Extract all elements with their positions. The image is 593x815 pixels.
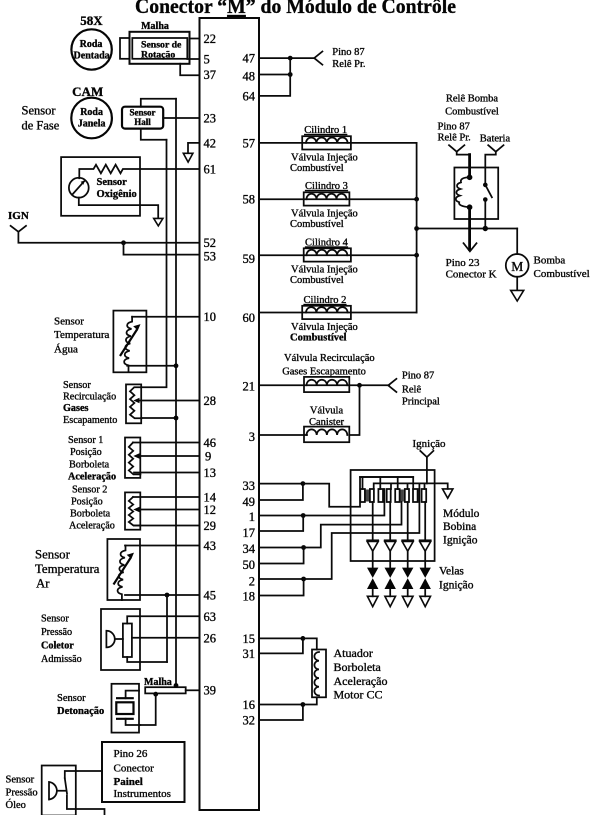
wire pin 13: [134, 472, 200, 474]
svg-text:Válvula: Válvula: [310, 406, 344, 417]
svg-text:57: 57: [243, 136, 256, 150]
sensor de rotacao box: [132, 38, 187, 60]
label Atuador Borboleta Aceleracao Motor CC: [334, 646, 388, 702]
ground arrow module: [443, 489, 453, 498]
wire water temp to shield net: [127, 365, 176, 367]
sensor 1 TPS box: [125, 438, 140, 478]
coil feed bus B to module ground: [374, 483, 448, 489]
relay switch blade: [485, 185, 492, 197]
relay switch contacts: [483, 183, 488, 188]
svg-text:23: 23: [204, 112, 217, 126]
connector symbol Pino 87 Rele Pr.: [314, 52, 322, 65]
junction 1/17: [301, 513, 306, 518]
wire pin 26: [132, 637, 200, 639]
oil pressure switch blade: [65, 778, 67, 793]
air temp arrow: [114, 553, 135, 585]
ignition coil windings group 3: [395, 489, 409, 502]
svg-text:Temperatura: Temperatura: [54, 329, 110, 341]
svg-text:58X: 58X: [80, 13, 103, 28]
label Valvula Injecao Combustivel 4: [290, 265, 358, 287]
wire hall top to shield net: [141, 99, 176, 107]
diode D2: [385, 540, 396, 551]
ground arrow oxygen sensor: [154, 218, 163, 226]
junction EGR / canister: [357, 383, 362, 388]
wire knock sensor to shield bar: [140, 694, 155, 725]
svg-text:Relê Pr.: Relê Pr.: [332, 59, 365, 70]
ignition coil windings group 1: [360, 489, 374, 502]
canister valve coil: [307, 429, 348, 435]
wire pin 32: [259, 705, 303, 721]
svg-text:Combustível: Combustível: [290, 275, 344, 286]
svg-text:29: 29: [204, 519, 217, 533]
svg-text:28: 28: [204, 394, 217, 408]
net riser hall-bottom to recirculacao box top: [141, 140, 166, 388]
svg-text:Válvula Injeção: Válvula Injeção: [291, 265, 358, 276]
sensor temperatura agua box: [113, 311, 146, 373]
svg-text:3: 3: [249, 430, 255, 444]
sensor recirculacao (EGR position) box: [126, 384, 141, 423]
label Sensor Recirculacao Gases Escapamento: [63, 380, 117, 426]
svg-text:Borboleta: Borboleta: [69, 459, 110, 470]
spark plug 1: [367, 568, 378, 607]
svg-text:Conector: Conector: [114, 762, 155, 774]
label Valvula Recirculacao Gases Escapamento: [282, 353, 374, 378]
wire pin 57 through injector 1: [259, 142, 417, 144]
wire pin 59 through injector 4: [259, 254, 417, 256]
svg-text:21: 21: [243, 380, 256, 394]
arrow pino 23: [464, 243, 477, 251]
svg-text:Válvula Injeção: Válvula Injeção: [291, 209, 358, 220]
water temp thermistor: [124, 317, 132, 371]
wire pin 48: [259, 74, 290, 76]
injector 4 coil: [307, 250, 348, 255]
svg-text:Hall: Hall: [134, 117, 151, 127]
ignition module box: [351, 470, 435, 561]
svg-text:Conector K: Conector K: [446, 269, 497, 281]
svg-text:Ignição: Ignição: [413, 438, 446, 450]
wire shield to pin 37: [180, 64, 199, 76]
wire pin 23: [163, 117, 199, 119]
wire relay output to pump line: [484, 200, 486, 229]
spark plug 3: [402, 568, 413, 607]
sensor detonacao box: [112, 684, 140, 733]
svg-text:Aceleração: Aceleração: [68, 472, 116, 483]
svg-text:Motor CC: Motor CC: [334, 688, 383, 702]
svg-text:Módulo: Módulo: [443, 508, 480, 520]
svg-text:49: 49: [243, 495, 256, 509]
svg-text:37: 37: [204, 68, 217, 82]
svg-text:50: 50: [243, 558, 256, 572]
wires diodes to spark plugs: [373, 551, 426, 568]
svg-text:16: 16: [243, 698, 256, 712]
cam window wheel (Roda Janela): [71, 98, 112, 139]
sensor 1 zigzag: [129, 443, 141, 475]
svg-text:Relê Pr.: Relê Pr.: [438, 133, 471, 144]
label Sensor Detonacao: [57, 693, 104, 717]
junction 2/18: [301, 577, 306, 582]
svg-text:Pressão: Pressão: [41, 627, 72, 638]
svg-text:2: 2: [249, 575, 255, 589]
svg-text:Sensor 1: Sensor 1: [68, 435, 103, 446]
svg-text:17: 17: [243, 526, 256, 540]
svg-text:10: 10: [204, 310, 217, 324]
svg-text:47: 47: [243, 52, 256, 66]
wire pin 33: [259, 483, 303, 485]
svg-text:Dentada: Dentada: [74, 51, 110, 62]
label Pino 87 Rele Pr.: [332, 47, 365, 70]
sensor temperatura ar box: [107, 539, 140, 600]
ground arrow fuel pump: [511, 290, 524, 301]
svg-text:15: 15: [243, 632, 256, 646]
svg-text:Roda: Roda: [80, 107, 103, 118]
ignition coil windings group 2: [378, 489, 390, 502]
supply symbol ignicao: [420, 451, 433, 457]
wire IGN to pin 52: [18, 232, 199, 243]
svg-text:Rotação: Rotação: [141, 49, 175, 60]
junction 16/32: [301, 702, 306, 707]
wire ignicao feed: [426, 457, 428, 483]
svg-text:12: 12: [204, 503, 217, 517]
junction recirculacao / shield net: [174, 416, 179, 421]
wire pin 1: [259, 515, 303, 517]
svg-text:Instrumentos: Instrumentos: [114, 788, 171, 800]
svg-text:32: 32: [243, 714, 256, 728]
svg-text:Conector “M” do Módulo de Cont: Conector “M” do Módulo de Contrôle: [135, 0, 456, 18]
wire pin 42 to ground: [188, 143, 200, 153]
svg-text:Coletor: Coletor: [41, 641, 74, 652]
svg-text:Velas: Velas: [439, 566, 464, 578]
svg-text:Bomba: Bomba: [534, 255, 566, 267]
pin labels left column: [204, 32, 217, 698]
EGR valve box: [304, 377, 349, 392]
junction injector3 / bus: [414, 197, 419, 202]
svg-text:Aceleração: Aceleração: [334, 674, 388, 688]
diode D4: [420, 540, 431, 551]
connector symbol pino 87 rele principal: [388, 379, 396, 392]
svg-text:Combustível: Combustível: [534, 268, 590, 280]
junction 48/64: [288, 72, 293, 77]
junction relay coil top: [467, 175, 473, 181]
svg-text:31: 31: [243, 647, 256, 661]
svg-text:26: 26: [204, 632, 217, 646]
wire pin 18: [259, 579, 304, 596]
ground arrow pin 42: [183, 153, 193, 162]
sensor pressao coletor (MAP) box: [101, 609, 140, 670]
spark plug 4: [420, 568, 431, 607]
net 15/31 to actuator: [303, 638, 317, 649]
svg-text:Posição: Posição: [71, 497, 103, 508]
wire pin 45: [125, 594, 200, 596]
wire pin 49: [259, 484, 303, 500]
net 1/17 to module: [303, 489, 384, 516]
svg-text:Janela: Janela: [78, 118, 106, 129]
bus B stubs: [391, 483, 425, 489]
junction relay output: [483, 226, 488, 231]
wire pin 10: [132, 316, 199, 318]
svg-text:Combustível: Combustível: [445, 107, 499, 118]
svg-text:de Fase: de Fase: [22, 119, 60, 133]
svg-text:Válvula Recirculação: Válvula Recirculação: [284, 353, 375, 364]
svg-text:Água: Água: [54, 344, 78, 356]
svg-text:Bobina: Bobina: [443, 521, 476, 533]
svg-text:Admissão: Admissão: [41, 654, 82, 665]
svg-text:Sensor: Sensor: [63, 380, 91, 391]
svg-text:53: 53: [204, 250, 217, 264]
svg-text:64: 64: [243, 90, 256, 104]
toothed wheel (Roda Dentada): [71, 29, 111, 69]
oxygen sensor gauge circle: [69, 178, 89, 198]
MAP sensor D symbol: [106, 631, 123, 648]
svg-text:Sensor: Sensor: [6, 775, 35, 786]
spark plug 2: [385, 568, 396, 607]
svg-text:Cilindro 3: Cilindro 3: [305, 181, 348, 192]
label Pino 87 Rele Principal: [402, 371, 440, 408]
injector 4 box: [304, 248, 351, 261]
sensor 2 zigzag: [129, 497, 141, 526]
junction IGN/52/53: [121, 240, 126, 245]
wire pin 5: [187, 58, 199, 60]
svg-text:M: M: [511, 259, 523, 274]
fuel pump relay box: [454, 168, 498, 220]
svg-text:Combustível: Combustível: [290, 333, 347, 344]
wire pin 43: [125, 545, 200, 547]
rotation sensor plug rect: [120, 38, 130, 59]
svg-text:46: 46: [204, 436, 217, 450]
canister valve box: [304, 427, 349, 443]
rotation sensor shield box: [130, 32, 190, 64]
knock shield bar: [145, 687, 186, 693]
connector M body: [200, 18, 260, 810]
svg-text:IGN: IGN: [8, 210, 29, 222]
svg-text:Ar: Ar: [36, 576, 50, 590]
label Valvula Canister: [309, 406, 344, 429]
svg-text:43: 43: [204, 539, 217, 553]
svg-text:63: 63: [204, 610, 217, 624]
sensor hall box: [122, 107, 163, 129]
svg-text:Oxigênio: Oxigênio: [97, 189, 137, 200]
wire relay coil to pino 23 (bold): [468, 207, 471, 249]
injector 2 box: [302, 306, 351, 319]
air temp thermistor: [118, 546, 126, 601]
label Pino 26 Conector Painel Instrumentos box: [102, 742, 185, 802]
svg-text:Relê: Relê: [402, 385, 422, 396]
oil pressure switch D symbol: [49, 782, 65, 800]
wire pin 46: [133, 442, 200, 444]
svg-text:Pino 87: Pino 87: [402, 371, 434, 382]
EGR position zigzag: [130, 387, 142, 418]
svg-text:Sensor 2: Sensor 2: [72, 485, 107, 496]
svg-text:9: 9: [205, 450, 211, 464]
label Valvula Injecao Combustivel 3: [290, 209, 358, 231]
junction 34/50: [301, 545, 306, 550]
svg-text:1: 1: [249, 510, 255, 524]
svg-text:13: 13: [204, 466, 217, 480]
junction bus / relay feed: [414, 226, 419, 231]
sensor oxigenio box: [61, 157, 140, 216]
label Modulo Bobina Ignicao: [443, 508, 480, 546]
relay coil wavy: [456, 177, 470, 207]
svg-text:5: 5: [204, 53, 210, 67]
svg-text:33: 33: [243, 479, 256, 493]
wire pin 34: [259, 547, 304, 549]
svg-text:34: 34: [243, 542, 256, 556]
svg-text:Válvula Injeção: Válvula Injeção: [291, 322, 358, 333]
svg-text:58: 58: [243, 193, 256, 207]
label Pino 87 Rele Pr. (relay): [438, 122, 471, 144]
svg-text:Temperatura: Temperatura: [35, 562, 100, 576]
svg-text:52: 52: [204, 236, 217, 250]
svg-text:Atuador: Atuador: [334, 646, 373, 660]
svg-text:Combustível: Combustível: [290, 163, 344, 174]
throttle actuator box: [312, 650, 326, 698]
svg-text:Sensor: Sensor: [97, 177, 128, 188]
svg-text:Escapamento: Escapamento: [63, 415, 117, 426]
wire pin 9 with wiper arrow: [133, 453, 199, 458]
wire MAP bottom to pin45 net: [127, 657, 167, 662]
wire pin 3: [259, 434, 307, 436]
svg-text:Gases: Gases: [63, 403, 89, 414]
net 33/49 to module: [303, 477, 413, 507]
svg-text:Sensor: Sensor: [22, 104, 57, 118]
wire pin 31: [259, 638, 303, 653]
svg-text:Posição: Posição: [70, 447, 102, 458]
svg-text:22: 22: [204, 32, 217, 46]
label Valvula Injecao Combustivel 2: [290, 322, 358, 344]
junction water temp / shield net: [174, 363, 179, 368]
svg-text:Sensor: Sensor: [54, 316, 84, 328]
wire canister to EGR junction: [349, 385, 359, 435]
svg-text:Cilindro 1: Cilindro 1: [304, 125, 347, 136]
sensor pressao oleo box: [42, 766, 76, 815]
bus A stubs: [363, 477, 398, 489]
svg-text:Cilindro 4: Cilindro 4: [305, 238, 349, 249]
svg-text:59: 59: [243, 252, 256, 266]
injector 1 coil: [306, 138, 348, 143]
junction 33/49: [301, 481, 306, 486]
wire hall bottom to lower net: [141, 129, 167, 140]
svg-text:Bateria: Bateria: [480, 134, 511, 145]
junction relay coil bottom: [467, 204, 473, 210]
net riser pin45 to map sensor box: [166, 595, 168, 662]
injector 3 coil: [307, 194, 347, 199]
shield net vertical line: [175, 99, 177, 685]
label Sensor de Fase: [22, 104, 60, 133]
water temp arrow: [120, 324, 141, 356]
svg-text:Cilindro 2: Cilindro 2: [304, 295, 347, 306]
coil output wires to diodes: [373, 502, 426, 540]
injector 3 box: [304, 192, 350, 205]
wire pin 63: [127, 616, 199, 623]
injector 1 box: [302, 136, 351, 149]
actuator coil: [314, 652, 319, 696]
MAP sensor element rect: [123, 624, 132, 658]
IGN supply symbol: [11, 226, 26, 232]
net 2/18 to module: [304, 483, 420, 579]
junction 15/31: [301, 636, 306, 641]
svg-text:Malha: Malha: [141, 21, 169, 32]
title: Conector M do Modulo de Controle (cut off at top): [135, 0, 456, 18]
wire pin 17: [259, 516, 303, 532]
label Sensor Temperatura Agua: [54, 316, 110, 356]
wire pin 58 through injector 3: [259, 198, 417, 200]
svg-text:CAM: CAM: [72, 84, 103, 99]
label Velas Ignicao: [439, 566, 474, 592]
sensor 2 TPS box: [125, 492, 140, 529]
label Sensor Oxigenio: [97, 177, 137, 200]
wire bateria to relay switch: [485, 152, 496, 185]
pin labels right column: [243, 52, 256, 728]
junction shield net / knock shield bar: [174, 683, 179, 688]
svg-text:39: 39: [204, 684, 217, 698]
svg-text:Aceleração: Aceleração: [69, 521, 115, 532]
wire pin 22: [190, 38, 200, 40]
label Valvula Injecao Combustivel 1: [290, 152, 358, 174]
label Sensor 2 Posicao Borboleta Aceleracao: [69, 485, 115, 532]
svg-text:Sensor: Sensor: [41, 613, 69, 624]
wire pin 14: [133, 496, 200, 498]
svg-text:Pino 87: Pino 87: [438, 122, 470, 133]
wire injector bus to relay: [417, 228, 518, 230]
svg-text:Sensor: Sensor: [57, 693, 86, 704]
wire to fuel pump motor: [516, 229, 518, 255]
label Sensor 1 Posicao Borboleta Aceleracao: [68, 435, 116, 482]
svg-text:18: 18: [243, 590, 256, 604]
wire pump to ground: [516, 277, 518, 290]
injector 2 coil: [306, 307, 348, 312]
junction knock signal / shield bar: [153, 692, 158, 697]
supply symbol pino 87 (relay coil feed): [449, 145, 464, 152]
svg-text:Sensor: Sensor: [35, 548, 71, 562]
svg-text:Ignição: Ignição: [439, 580, 474, 592]
wire pin 12 with wiper arrow: [133, 507, 199, 512]
junction 47/48: [288, 56, 293, 61]
svg-text:Gases Escapamento: Gases Escapamento: [282, 367, 366, 378]
svg-text:Combustível: Combustível: [290, 219, 344, 230]
ignition coil windings group 4: [413, 489, 426, 502]
diode D1: [367, 540, 378, 551]
svg-text:Ignição: Ignição: [443, 534, 478, 546]
svg-text:61: 61: [204, 163, 217, 177]
svg-text:Borboleta: Borboleta: [334, 660, 382, 674]
svg-text:60: 60: [243, 311, 256, 325]
label Bomba Combustivel: [534, 255, 590, 281]
wire pin 50: [259, 548, 304, 564]
svg-text:42: 42: [204, 136, 217, 150]
svg-text:Relê Bomba: Relê Bomba: [446, 94, 499, 105]
svg-text:48: 48: [243, 70, 256, 84]
knock sensor element: [116, 691, 140, 725]
coil feed bus A: [360, 477, 413, 489]
svg-text:Principal: Principal: [402, 397, 440, 408]
wire pin 28 with wiper arrow: [133, 398, 199, 403]
supply symbol bateria: [488, 145, 503, 152]
label Rele Bomba Combustivel: [445, 94, 499, 118]
svg-text:Pressão: Pressão: [6, 788, 38, 799]
wire pin 39: [186, 689, 200, 691]
resistor in oxygen sensor and wire pin 61: [79, 165, 199, 179]
svg-text:Óleo: Óleo: [6, 799, 26, 811]
wire pin 15: [259, 637, 303, 639]
wire to pin 53: [124, 243, 200, 255]
fuel pump motor: [506, 254, 529, 277]
label Sensor Pressao Coletor Admissao: [41, 613, 82, 665]
net 16/32 to actuator: [303, 697, 317, 704]
oil switch wire top: [65, 771, 102, 778]
svg-text:Válvula Injeção: Válvula Injeção: [291, 152, 358, 163]
wire pino87 to relay coil (bold): [457, 152, 470, 155]
wire pin 47 to Pino 87 Rele Pr.: [259, 57, 314, 59]
svg-text:Pino 26: Pino 26: [114, 748, 148, 760]
